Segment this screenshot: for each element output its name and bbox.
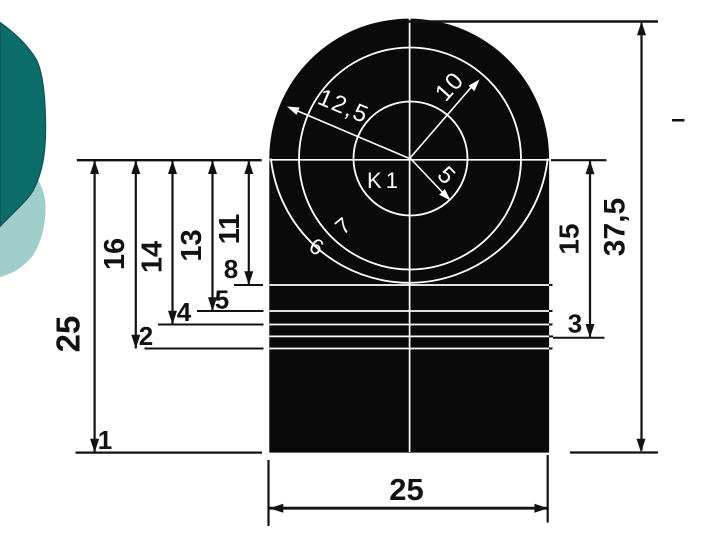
- center line right extension: [551, 159, 607, 161]
- dim 15 down arrow: [586, 324, 595, 338]
- dim 14 up arrow: [168, 160, 177, 174]
- dim 11 up arrow: [244, 160, 253, 174]
- svg-text:13: 13: [176, 229, 208, 261]
- scribed line right stubs: [549, 285, 553, 349]
- scribe circle R12.5 line6 bottom arc: [271, 159, 548, 283]
- scribed line 5 left extension: [197, 310, 264, 312]
- top extension line: [407, 20, 658, 22]
- template dark teal circle: [0, 23, 46, 227]
- bottom dim right arrow: [534, 504, 548, 513]
- dimension 11 vertical line: [248, 160, 250, 285]
- dimension 15 vertical line: [589, 160, 591, 337]
- svg-text:1: 1: [98, 425, 112, 455]
- dim 15 up arrow: [586, 160, 595, 174]
- svg-text:37,5: 37,5: [599, 198, 632, 256]
- bottom dim right extension vertical: [547, 455, 549, 523]
- bottom dim left extension vertical: [267, 460, 269, 526]
- bottom right extension line: [570, 451, 658, 453]
- svg-text:2: 2: [139, 321, 153, 351]
- vertical center line: [409, 19, 411, 453]
- scribed line 4 white: [269, 324, 549, 326]
- radius 5 leader line: [411, 159, 447, 197]
- svg-text:5: 5: [215, 285, 229, 315]
- dimension 37,5 vertical line: [640, 23, 642, 450]
- radius 5 arrowhead: [439, 189, 450, 200]
- svg-text:25: 25: [389, 472, 423, 507]
- workpiece silhouette: [269, 19, 549, 453]
- bottom dimension 25 line: [270, 507, 549, 510]
- svg-text:25: 25: [50, 316, 87, 353]
- svg-text:K1: K1: [367, 168, 402, 193]
- scribed line 8 left extension: [234, 284, 263, 286]
- svg-text:4: 4: [177, 297, 192, 327]
- dim 13 up arrow: [208, 160, 217, 174]
- svg-text:14: 14: [137, 241, 169, 273]
- dim 37,5 up arrow: [637, 22, 646, 36]
- scribed line 5 white: [269, 310, 549, 312]
- dim 14 down arrow: [168, 311, 177, 325]
- horizontal center line: [270, 159, 550, 161]
- drill circle R5: [354, 102, 468, 216]
- svg-text:3: 3: [568, 309, 582, 339]
- svg-text:11: 11: [214, 214, 246, 245]
- radius 10 leader line: [410, 84, 474, 159]
- scribe circle R10 line7: [299, 48, 521, 270]
- dim 25 down arrow: [90, 439, 99, 453]
- dim 16 up arrow: [131, 160, 140, 174]
- radius 10 arrowhead: [469, 80, 480, 92]
- dimension 16 vertical line: [135, 160, 137, 348]
- dimension 13 vertical line: [211, 160, 213, 311]
- svg-text:15: 15: [554, 223, 585, 254]
- top extension line of left dims / center line left extension: [77, 159, 262, 161]
- dimension 25 left vertical line: [93, 160, 95, 452]
- svg-text:16: 16: [99, 238, 131, 270]
- scribed line 8 white: [269, 284, 549, 286]
- bottom dim left arrow: [270, 504, 284, 513]
- dim 13 down arrow: [208, 297, 217, 311]
- radius 12.5 arrowhead: [287, 107, 300, 115]
- dim 25 up arrow: [90, 160, 99, 174]
- dim 37,5 down arrow: [637, 439, 646, 453]
- dim 16 down arrow: [131, 335, 140, 349]
- stray dash top right: [672, 119, 685, 122]
- scribed line 4 left extension: [158, 324, 264, 326]
- scribed line 2 white: [269, 348, 549, 350]
- scribed line 3 right extension: [553, 337, 605, 339]
- radius 12.5 leader line: [293, 109, 409, 159]
- bottom left extension line: [76, 452, 263, 454]
- scribed line 2 left extension: [145, 348, 264, 350]
- svg-text:8: 8: [224, 254, 238, 284]
- template light teal circle: [0, 150, 46, 277]
- dim 11 down arrow: [244, 271, 253, 285]
- dimension 14 vertical line: [171, 160, 173, 324]
- scribed line 3 white: [269, 335, 549, 337]
